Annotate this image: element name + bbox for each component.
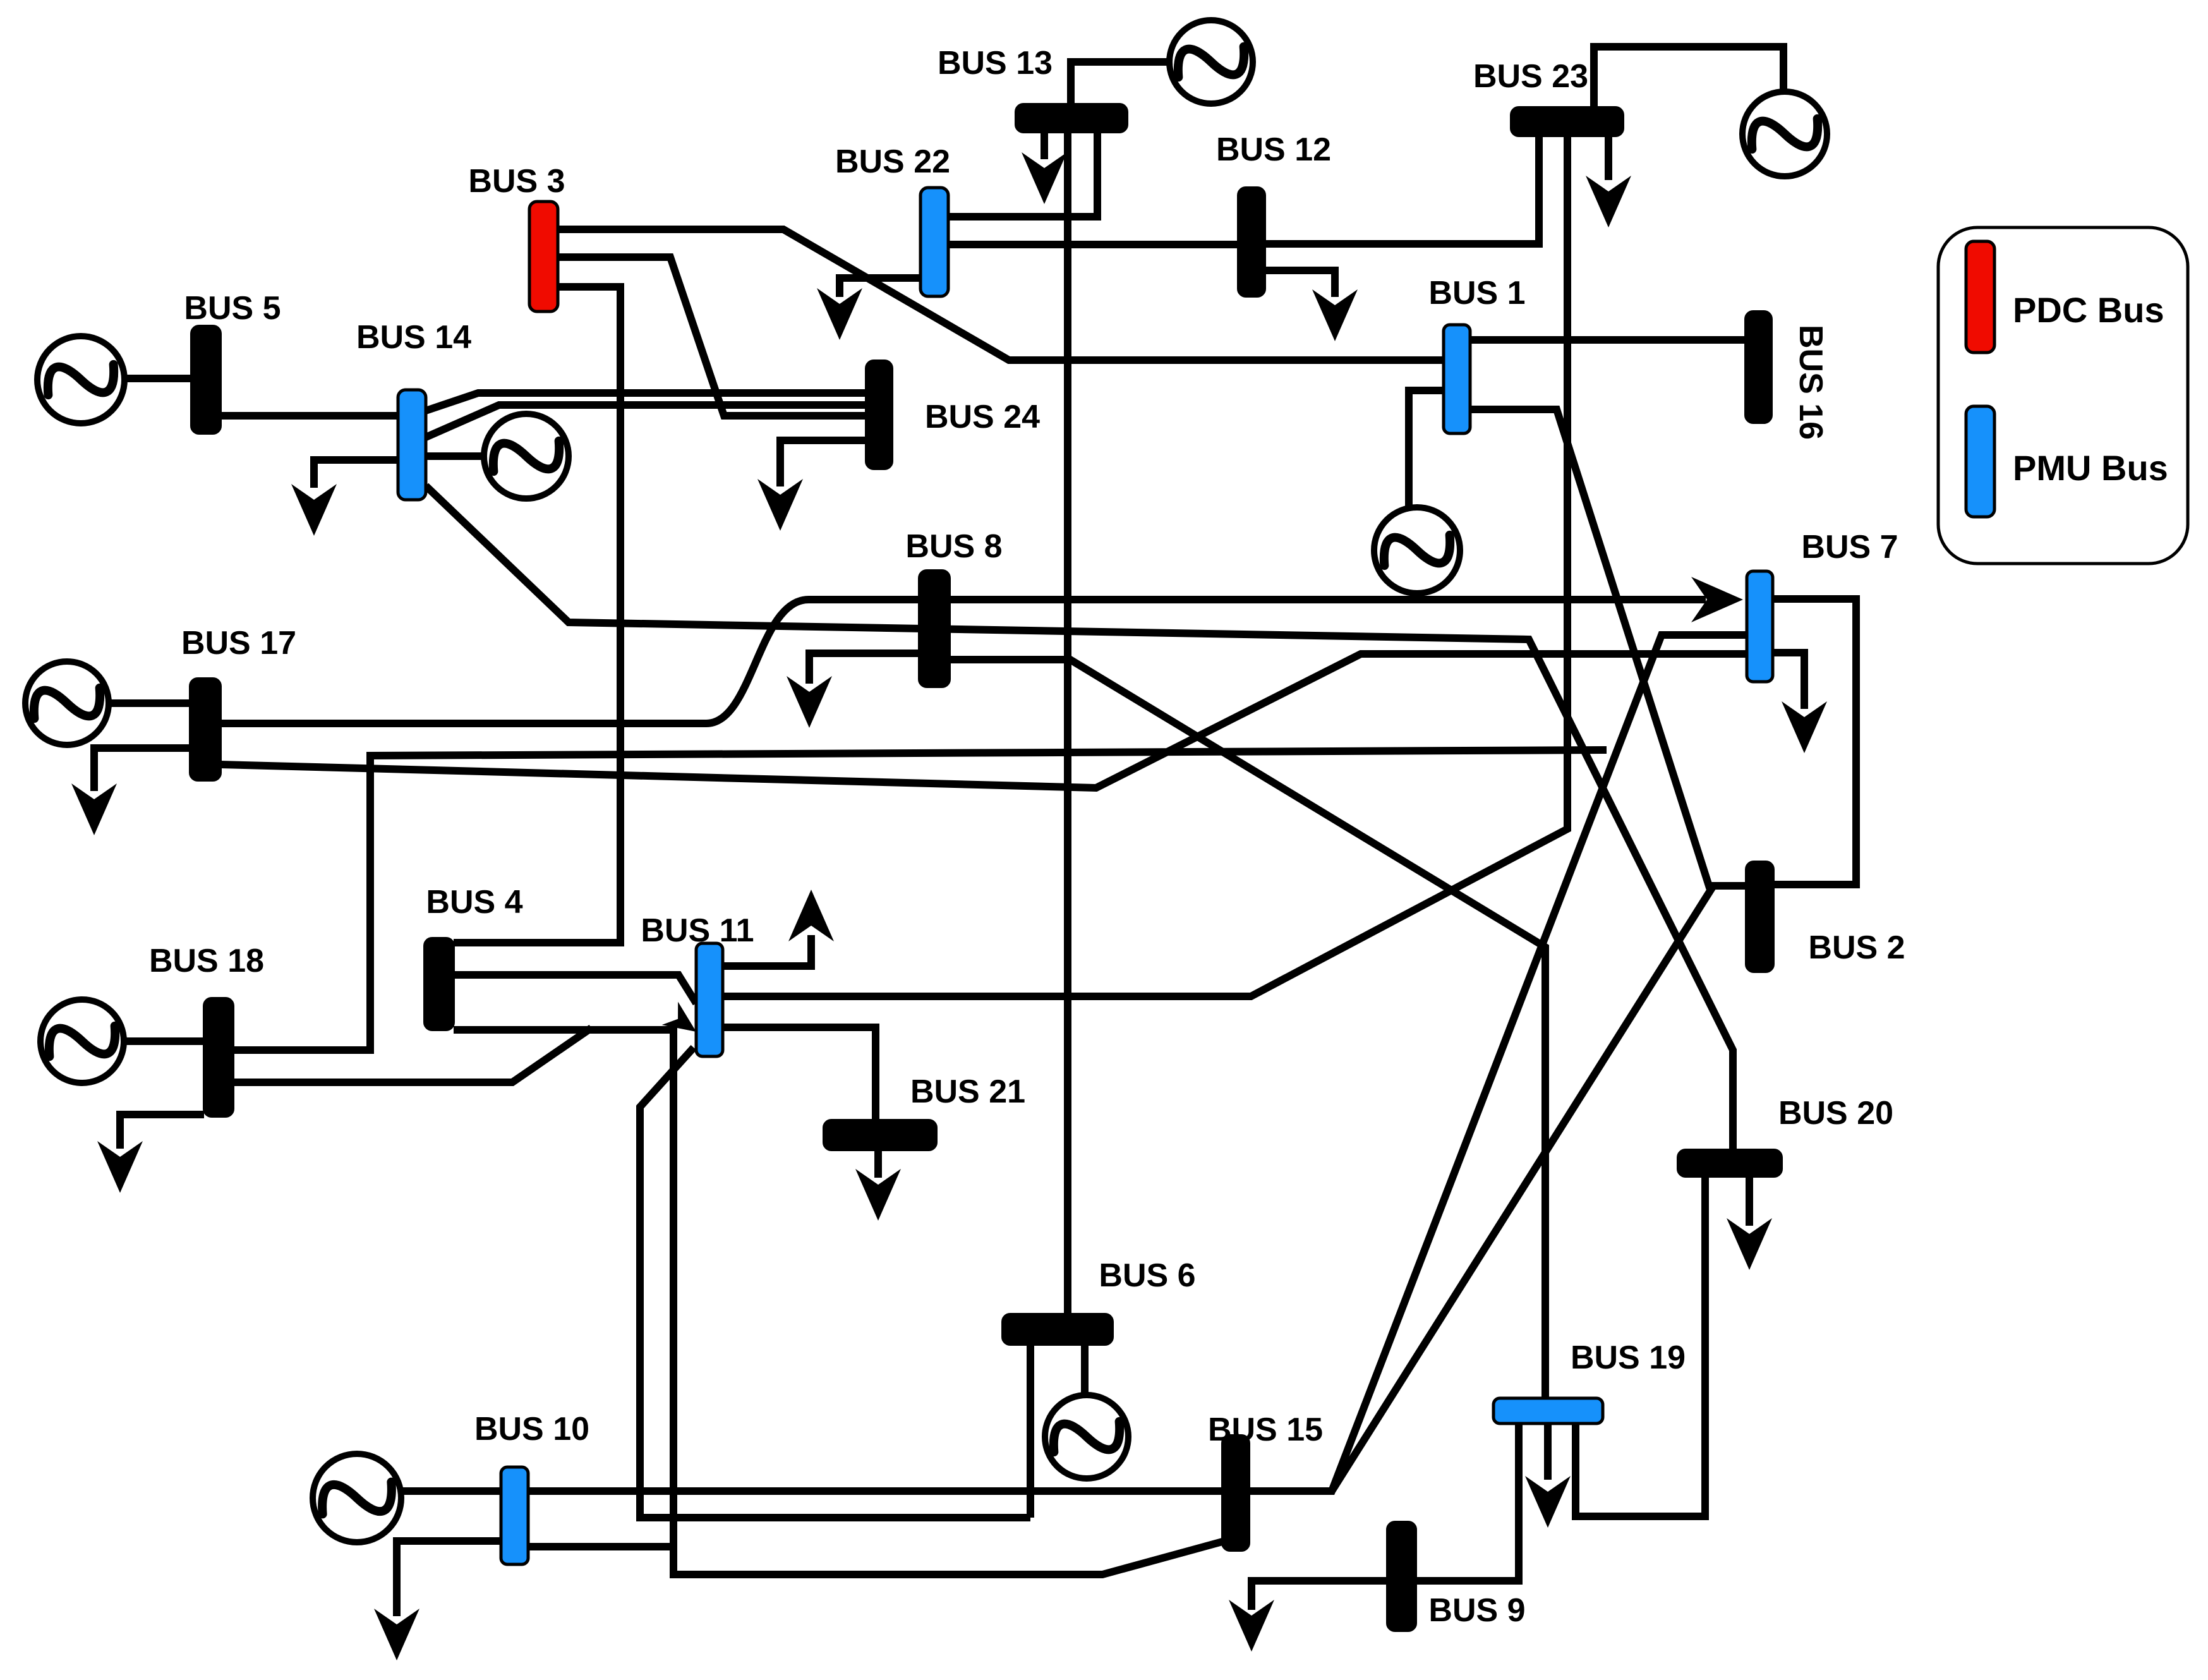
wire BUS 4 to BUS 10 via vertical: [454, 1030, 673, 1547]
svg-text:BUS 11: BUS 11: [641, 912, 754, 949]
bus bar BUS 6: [1003, 1314, 1113, 1345]
wire BUS 14 to BUS 24 upper: [426, 393, 866, 411]
bus bar BUS 2: [1746, 862, 1773, 972]
wire BUS 23 to generator: [1594, 47, 1783, 107]
wire BUS 15 to BUS 2 diagonal: [1332, 886, 1713, 1491]
wire BUS 8 load feeder: [809, 653, 919, 684]
wire BUS 1 to BUS 16: [1470, 336, 1746, 344]
wire BUS 6 to generator: [1081, 1345, 1089, 1396]
bus bar BUS 21: [824, 1120, 936, 1150]
wire BUS 10 to BUS 15: [528, 1487, 1222, 1495]
svg-text:BUS 21: BUS 21: [910, 1073, 1025, 1110]
wire BUS 18 to BUS 4/BUS 10 tie: [234, 1028, 591, 1082]
wire BUS 19 load feeder: [1544, 1425, 1552, 1480]
svg-text:BUS 7: BUS 7: [1801, 529, 1898, 565]
wire BUS 3 to BUS 24: [558, 257, 866, 416]
wire BUS 4 to BUS 11: [454, 975, 696, 1003]
legend box: [1938, 227, 2188, 564]
generator at BUS 5: [37, 336, 124, 423]
bus bar BUS 16: [1746, 311, 1771, 423]
bus bar BUS 11 (PMU, blue): [696, 943, 723, 1056]
generator at BUS 6: [1045, 1395, 1128, 1478]
wire BUS 17 to BUS 7 with arrow (through BUS 8): [220, 600, 1706, 723]
bus bar BUS 7 (PMU, blue): [1747, 571, 1773, 682]
wire BUS 23 load feeder: [1605, 136, 1612, 180]
svg-text:BUS 20: BUS 20: [1778, 1095, 1893, 1132]
bus bar BUS 12: [1238, 188, 1265, 296]
wire generator to BUS 10: [401, 1487, 501, 1495]
wire BUS 22 load feeder: [840, 278, 920, 297]
svg-text:PDC Bus: PDC Bus: [2013, 290, 2164, 330]
arrow into BUS 11: [662, 1002, 704, 1044]
generator at BUS 10: [313, 1454, 401, 1542]
wire BUS 14 to BUS 20 long line: [426, 486, 1733, 1150]
load arrow BUS 13: [1022, 152, 1067, 204]
svg-text:BUS 5: BUS 5: [184, 290, 281, 327]
bus bar BUS 9: [1387, 1522, 1416, 1631]
bus bar BUS 20: [1678, 1150, 1782, 1176]
wire BUS 3 to BUS 1: [558, 229, 1445, 360]
svg-text:BUS 19: BUS 19: [1571, 1339, 1686, 1376]
bus bar BUS 3 (PDC, red): [529, 202, 558, 311]
wire BUS 9 to BUS 19: [1416, 1425, 1519, 1581]
wire BUS 20 load feeder: [1746, 1176, 1753, 1226]
arrow into BUS 7: [1691, 577, 1743, 622]
wire BUS 14 to BUS 24 lower: [426, 405, 866, 437]
svg-text:BUS 14: BUS 14: [356, 319, 471, 356]
generator at BUS 1: [1374, 507, 1460, 593]
load arrow BUS 18: [97, 1141, 143, 1193]
bus bar BUS 22 (PMU, blue): [920, 188, 948, 296]
generator at BUS 23: [1742, 92, 1827, 176]
wire BUS 8 to BUS 19 diagonal: [950, 660, 1545, 1398]
generator at BUS 18: [40, 1000, 124, 1083]
bus bar BUS 5: [191, 326, 220, 433]
wire BUS 11 to BUS 15 via vertical: [640, 1048, 1030, 1518]
bus bar BUS 18: [204, 998, 233, 1116]
bus bar BUS 23: [1511, 107, 1623, 136]
wire BUS 12 to BUS 23: [1265, 136, 1539, 244]
load arrow BUS 9: [1229, 1600, 1274, 1652]
generator at BUS 13: [1169, 20, 1253, 104]
wire BUS 13 to generator: [1071, 62, 1169, 104]
load arrow BUS 12: [1312, 289, 1358, 341]
svg-text:BUS 2: BUS 2: [1808, 929, 1905, 966]
load arrow BUS 21: [855, 1169, 901, 1221]
wire BUS 15 to BUS 7 diagonal: [1249, 635, 1747, 1491]
wire BUS 23 to BUS 11: [723, 136, 1567, 996]
wire BUS 1 to BUS 2 diagonal: [1470, 409, 1746, 886]
wire generator to BUS 5: [121, 375, 191, 382]
svg-text:BUS 22: BUS 22: [835, 143, 950, 180]
load arrow BUS 20: [1727, 1218, 1772, 1270]
wire BUS 22 to BUS 12: [948, 241, 1238, 248]
bus bar BUS 24: [866, 361, 892, 469]
feeder arrow BUS 11 up: [788, 890, 834, 941]
svg-text:PMU Bus: PMU Bus: [2013, 448, 2168, 488]
bus bar BUS 17: [190, 679, 220, 780]
svg-text:BUS 13: BUS 13: [938, 45, 1053, 82]
bus bar BUS 8: [919, 571, 950, 687]
generator at BUS 14: [484, 414, 569, 499]
wire BUS 5 to BUS 14: [220, 412, 398, 420]
svg-text:BUS 24: BUS 24: [925, 399, 1040, 435]
wire BUS 18 up and right to line junction: [234, 750, 1607, 1050]
wire BUS 6 down tie: [1027, 1345, 1034, 1518]
bus bar BUS 10 (PMU, blue): [501, 1467, 528, 1564]
wire BUS 7 load feeder: [1773, 653, 1804, 709]
wire BUS 3 to BUS 4 via long vertical: [454, 287, 620, 943]
svg-text:BUS 3: BUS 3: [468, 163, 565, 200]
svg-text:BUS 12: BUS 12: [1216, 131, 1331, 168]
wire BUS 14 to generator: [426, 452, 483, 460]
wire BUS 24 load feeder: [780, 440, 866, 486]
wire BUS 13 to BUS 6 long vertical: [1064, 132, 1071, 1314]
bus bar BUS 19 (PMU, blue): [1493, 1398, 1603, 1423]
wire BUS 13 load feeder: [1041, 132, 1048, 159]
legend PDC bus swatch (red): [1966, 241, 1994, 353]
bus bar BUS 15: [1222, 1435, 1249, 1550]
svg-text:BUS 9: BUS 9: [1428, 1592, 1525, 1629]
load arrow BUS 17: [71, 783, 117, 835]
wire generator to BUS 18: [123, 1037, 204, 1045]
bus bar BUS 1 (PMU, blue): [1444, 325, 1470, 433]
wire BUS 17 to BUS 7 lower: [220, 654, 1747, 788]
wire BUS 1 to generator: [1409, 390, 1444, 507]
svg-text:BUS 18: BUS 18: [149, 943, 264, 979]
wire BUS 14 load feeder: [314, 460, 398, 488]
wire BUS 17 load feeder: [94, 748, 190, 791]
svg-text:BUS 6: BUS 6: [1099, 1257, 1195, 1294]
wire BUS 11 feeder up arrow: [723, 935, 811, 966]
wire BUS 10 load feeder: [397, 1541, 501, 1616]
svg-text:BUS 17: BUS 17: [181, 625, 296, 662]
generator at BUS 17: [25, 662, 109, 745]
svg-text:BUS 23: BUS 23: [1473, 58, 1588, 95]
bus bar BUS 14 (PMU, blue): [398, 390, 426, 500]
load arrow BUS 19: [1525, 1476, 1571, 1528]
wire BUS 7 to BUS 2 loop: [1773, 599, 1856, 885]
wire BUS 11 to BUS 21: [723, 1027, 876, 1120]
load arrow BUS 10: [374, 1609, 419, 1660]
load arrow BUS 7: [1782, 701, 1827, 753]
wire BUS 22 to BUS 13: [948, 132, 1097, 217]
svg-text:BUS 4: BUS 4: [426, 884, 522, 921]
svg-text:BUS 15: BUS 15: [1208, 1411, 1323, 1448]
wire BUS 18 load feeder: [120, 1115, 204, 1149]
load arrow BUS 14: [291, 484, 337, 536]
load arrow BUS 24: [757, 479, 803, 531]
wire generator to BUS 17: [108, 699, 190, 707]
wire BUS 10 to BUS 15 lower tie: [673, 1542, 1222, 1574]
svg-text:BUS 8: BUS 8: [905, 528, 1002, 565]
legend PMU bus swatch (blue): [1966, 406, 1994, 517]
wire BUS 19 to BUS 20: [1576, 1176, 1705, 1516]
wire BUS 12 load feeder: [1265, 270, 1335, 297]
bus bar BUS 13: [1016, 104, 1127, 132]
svg-text:BUS 16: BUS 16: [1792, 325, 1829, 440]
load arrow BUS 23: [1586, 176, 1631, 227]
load arrow BUS 22: [817, 288, 862, 340]
load arrow BUS 8: [787, 676, 832, 728]
wire BUS 9 load feeder: [1252, 1581, 1387, 1610]
svg-text:BUS 1: BUS 1: [1428, 275, 1525, 311]
svg-text:BUS 10: BUS 10: [474, 1411, 589, 1447]
wire BUS 21 load feeder: [874, 1150, 882, 1178]
bus bar BUS 4: [425, 938, 454, 1030]
